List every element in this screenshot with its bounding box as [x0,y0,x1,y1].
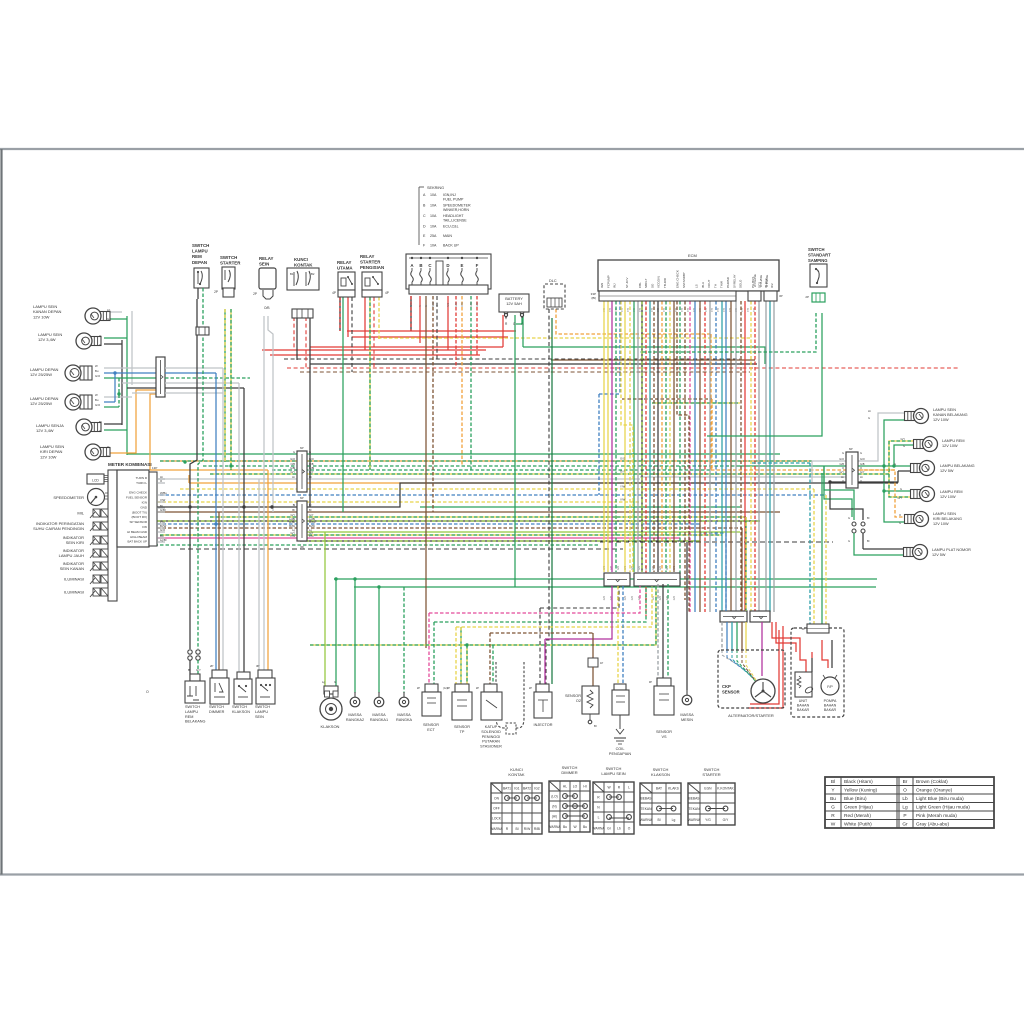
battery BT1 [499,294,529,312]
svg-text:MASSA: MASSA [680,713,694,717]
wire relay utama verticals [339,297,341,331]
svg-text:Br: Br [292,508,295,512]
svg-text:G/B: G/B [860,462,865,466]
svg-text:TURN R: TURN R [136,476,148,480]
svg-text:O: O [842,479,844,483]
svg-text:SWITCH: SWITCH [192,243,209,248]
svg-text:(N): (N) [552,804,557,808]
svg-text:Lg: Lg [322,680,326,684]
svg-text:Bl: Bl [594,724,597,728]
svg-text:4P: 4P [385,291,389,295]
svg-text:RANGKA: RANGKA [396,718,413,722]
svg-text:IGN: IGN [600,283,604,288]
svg-text:G: G [894,462,896,466]
svg-text:ECU,C&L: ECU,C&L [443,225,459,229]
svg-text:KATUP: KATUP [485,725,498,729]
svg-text:G/Y: G/Y [196,668,201,672]
wire CKP diagonal fan [722,650,749,672]
svg-text:WARNA: WARNA [640,818,653,822]
svg-text:Green (Hijau): Green (Hijau) [844,804,873,810]
svg-text:Red (Merah): Red (Merah) [844,813,871,819]
svg-text:POMPA: POMPA [824,699,837,703]
connector 9P headlight [156,357,165,397]
wire switch starter verticals [224,309,226,462]
svg-text:W/Bu: W/Bu [160,491,167,495]
svg-text:G/Y: G/Y [309,470,314,474]
svg-text:MAIN: MAIN [443,234,452,238]
svg-text:ECT: ECT [427,728,435,732]
connector 3P harness middle [604,573,630,586]
svg-text:Light Blue (Biru muda): Light Blue (Biru muda) [916,796,964,802]
bullet connectors brake switch wires [188,650,192,654]
svg-text:G/Y: G/Y [901,437,906,441]
wire sensor drop verticals [539,608,541,684]
svg-text:KONTAK: KONTAK [508,772,524,777]
svg-text:25A: 25A [430,234,437,238]
fuse legend text [418,187,420,245]
svg-text:KUNCI: KUNCI [294,257,308,262]
svg-text:Br: Br [903,779,908,785]
connector 6P above sensor vs [720,611,747,622]
svg-text:UTAMA: UTAMA [337,266,353,271]
svg-text:SWITCH: SWITCH [255,705,270,709]
wire battery green feed row [523,347,765,364]
svg-text:SPEEDOMETER: SPEEDOMETER [443,204,471,208]
connector 2P switch standart [812,293,825,302]
lamp rem upper L8 [914,440,924,449]
svg-text:METER KOMBINASI: METER KOMBINASI [108,462,152,467]
svg-text:G/Y: G/Y [898,496,903,500]
svg-text:LAMPU REM: LAMPU REM [942,439,965,443]
svg-text:12V 10W: 12V 10W [33,314,50,319]
svg-text:3P: 3P [649,680,652,684]
svg-text:BACK UP: BACK UP [443,244,459,248]
svg-text:BAKAR: BAKAR [824,708,837,712]
svg-text:O: O [628,826,631,830]
wire kunci kontak verticals [293,317,295,350]
wire relay sein verticals [263,316,265,512]
svg-text:MIL: MIL [77,511,84,516]
svg-text:KLAKSON: KLAKSON [232,710,250,714]
svg-text:KANAN BELAKANG: KANAN BELAKANG [933,413,968,417]
svg-text:G: G [899,521,901,525]
svg-text:FUEL PUMP: FUEL PUMP [443,197,464,201]
svg-text:W: W [95,393,98,397]
svg-text:FUEL SENSOR: FUEL SENSOR [126,496,148,500]
wire fuse box output verticals [410,296,412,331]
lamp plat nomor L12 [904,548,914,557]
wire left switch drops [215,373,217,678]
svg-text:12V 10W: 12V 10W [933,418,949,422]
svg-text:12V 10W: 12V 10W [942,444,958,448]
svg-text:B2: B2 [311,272,315,276]
svg-text:IGN,INJ: IGN,INJ [443,193,456,197]
svg-text:W/Bu: W/Bu [309,520,316,524]
wire battery leads [502,315,504,347]
svg-text:G/O: G/O [660,596,662,600]
svg-text:LS: LS [695,284,699,288]
svg-text:O: O [903,787,907,793]
svg-text:Light Green (Hijau muda): Light Green (Hijau muda) [916,804,970,810]
svg-text:L: L [598,815,600,819]
svg-text:HIGH BEAM: HIGH BEAM [130,535,147,539]
wire green right half rows [334,578,877,580]
svg-text:O: O [899,513,901,517]
table wire colour legend [825,777,994,828]
massa rangka2 ground G2 [354,692,356,698]
svg-text:KLAKSON: KLAKSON [651,772,670,777]
svg-text:12V 25/25W: 12V 25/25W [30,372,52,377]
svg-text:Bu: Bu [95,398,99,402]
svg-text:RELAY: RELAY [360,254,375,259]
svg-text:12V 10W: 12V 10W [40,454,57,459]
svg-text:O/B: O/B [291,462,296,466]
svg-text:G: G [334,680,336,684]
svg-text:VS: VS [661,735,667,739]
wire green feed to plat nomor with bullets [824,466,854,520]
wire DLC leads [546,309,549,684]
svg-text:SENSOR: SENSOR [656,730,672,734]
svg-text:G/Y: G/Y [291,513,296,517]
svg-text:Pink (Merah muda): Pink (Merah muda) [916,813,957,819]
svg-text:WARNA: WARNA [592,826,605,830]
svg-text:SEIN KANAN: SEIN KANAN [60,566,84,571]
svg-text:2P: 2P [529,686,532,690]
svg-text:G/Bl: G/Bl [160,508,166,512]
svg-text:3P: 3P [779,294,783,298]
svg-text:Brown (Coklat): Brown (Coklat) [916,779,948,785]
svg-text:Y/B: Y/B [711,308,714,312]
svg-text:DLC: DLC [549,279,557,283]
wire bundle main harness lower rows [157,501,640,503]
svg-text:WINKER,HORN: WINKER,HORN [443,208,469,212]
svg-text:HEADLIGHT: HEADLIGHT [443,214,464,218]
svg-text:Bu: Bu [830,796,836,802]
connector 2P brake switch [196,327,209,335]
svg-text:R/W: R/W [476,302,479,307]
svg-text:G/Y: G/Y [291,470,296,474]
svg-text:O/W: O/W [461,301,464,307]
svg-text:O/B: O/B [264,306,270,310]
svg-text:TEKAN: TEKAN [689,807,701,811]
svg-text:BAT1: BAT1 [503,786,511,790]
svg-text:G/Bl: G/Bl [309,466,314,470]
svg-text:KLAKSON: KLAKSON [321,724,340,729]
svg-text:O: O [842,466,844,470]
svg-text:12V 5W: 12V 5W [940,469,954,473]
svg-text:Bl: Bl [831,779,835,785]
svg-text:PUTARAN: PUTARAN [482,740,500,744]
svg-text:W: W [95,364,98,368]
svg-text:SEIN: SEIN [259,262,269,267]
wire headlight connector to dimmer switch [165,367,223,369]
klakson horn H1 [324,686,338,694]
ECM connector strip 3P b [764,291,777,301]
svg-text:LCD: LCD [92,479,99,483]
svg-text:TAIL,LICENSE: TAIL,LICENSE [443,218,467,222]
svg-text:ILUMINASI: ILUMINASI [64,577,84,582]
svg-text:Br/W: Br/W [289,524,295,528]
fuel pump assembly dashed box [791,628,844,717]
svg-text:Br: Br [309,508,312,512]
svg-text:BAT2: BAT2 [523,786,531,790]
svg-text:TP: TP [460,730,465,734]
svg-text:SOLENOID: SOLENOID [481,730,501,734]
wire sensor elbows from harness [540,586,619,608]
svg-text:V PHASE: V PHASE [759,275,763,287]
svg-text:PENGAPIAN: PENGAPIAN [609,752,631,756]
svg-text:R/G: R/G [447,303,450,307]
svg-text:1P: 1P [600,661,603,665]
alternator starter with CKP sensor M2 [718,650,785,708]
svg-text:Lb: Lb [107,308,111,312]
svg-text:ENG CHECK: ENG CHECK [129,491,147,495]
svg-text:Lg: Lg [902,804,908,810]
svg-text:LAMPU PLAT NOMOR: LAMPU PLAT NOMOR [932,548,971,552]
svg-text:COIL: COIL [616,747,625,751]
svg-text:3P: 3P [447,686,450,690]
connector 3P above alternator [750,611,770,622]
svg-text:Br/W: Br/W [309,524,315,528]
svg-text:U PHASE: U PHASE [765,275,769,287]
svg-text:LAMPU JAUH: LAMPU JAUH [59,553,84,558]
svg-text:HI: HI [583,784,586,788]
svg-text:OFF: OFF [493,806,500,810]
svg-text:SEIN: SEIN [255,715,264,719]
switch dimmer SW6 [212,670,227,678]
svg-text:10A: 10A [430,225,437,229]
svg-text:BEBAS: BEBAS [641,796,653,800]
svg-text:CKP: CKP [722,684,731,689]
svg-text:GND: GND [140,505,148,509]
svg-text:Black (Hitam): Black (Hitam) [844,779,873,785]
svg-text:SWITCH: SWITCH [808,247,825,252]
svg-text:INJ: INJ [613,283,617,288]
svg-text:W PHASE: W PHASE [753,274,757,287]
svg-text:Br: Br [425,304,428,307]
svg-text:Yellow (Kuning): Yellow (Kuning) [844,787,878,793]
svg-text:LOCK: LOCK [492,816,502,820]
wire black tail feeds with bullets [898,470,915,472]
svg-text:K.KONTAK: K.KONTAK [717,786,734,790]
svg-text:KONTAK: KONTAK [294,263,313,268]
svg-text:G: G [309,450,311,454]
wire red power staircase rows [347,330,516,332]
svg-text:6P: 6P [300,446,304,450]
svg-text:LAMPU BELAKANG: LAMPU BELAKANG [940,464,975,468]
svg-text:MASSA: MASSA [348,713,362,717]
wire jogged harness verticals [621,301,633,572]
svg-text:SWITCH: SWITCH [209,705,224,709]
svg-text:O: O [860,479,862,483]
svg-text:G/Y: G/Y [620,470,625,474]
switch lampu sein SW8 [258,670,272,678]
wire orange feed to sein kiri belakang [858,470,907,517]
sensor TP U3 [455,684,469,692]
sensor ECT U2 [425,684,438,692]
svg-text:G/Y: G/Y [309,513,314,517]
connector 6P harness left upper [297,451,307,492]
svg-text:Bu: Bu [95,369,99,373]
katup solenoid stasioner U4 [484,684,497,692]
svg-text:G: G [900,487,902,491]
svg-text:2P: 2P [214,290,218,294]
wire headlamp short bus [114,373,116,402]
svg-text:LAMPU REM: LAMPU REM [940,490,963,494]
svg-text:(Bl): (Bl) [591,296,596,300]
svg-text:V/W: V/W [620,498,626,502]
svg-text:G/O: G/O [639,566,641,570]
svg-text:BAHAN: BAHAN [824,704,837,708]
svg-text:G/O: G/O [290,457,295,461]
wire bundle main harness upper rows [127,453,780,455]
svg-text:ECM: ECM [688,253,697,258]
svg-text:SWITCH: SWITCH [220,255,237,260]
svg-text:KLAKS: KLAKS [668,786,679,790]
svg-text:G: G [831,804,835,810]
wire relay starter pengisian verticals [364,297,366,350]
svg-text:13P: 13P [152,466,157,470]
svg-text:Bl: Bl [188,668,191,672]
svg-text:12V 25/25W: 12V 25/25W [30,401,52,406]
svg-text:TB-IRD: TB-IRD [663,277,667,288]
svg-text:RANGKA2: RANGKA2 [346,718,364,722]
svg-text:3P: 3P [256,664,260,668]
svg-text:G: G [848,539,850,543]
fuse box SEKRING [406,254,491,289]
wire massa mesin drop [686,542,688,690]
svg-text:SWITCH: SWITCH [185,705,200,709]
svg-text:LAMPU: LAMPU [192,249,208,254]
lamp rem lower L10 [911,490,921,499]
svg-text:LAMPU SEIN: LAMPU SEIN [933,512,956,516]
svg-text:R/Bl: R/Bl [410,302,413,307]
svg-text:G: G [848,516,850,520]
svg-text:TH: TH [713,284,717,288]
switch klakson SW7 [237,672,250,679]
svg-text:VOUT: VOUT [707,279,711,288]
svg-text:IC2: IC2 [770,283,774,288]
svg-text:6P: 6P [300,496,304,500]
svg-text:BEBAS: BEBAS [689,796,701,800]
svg-text:SSTANDBY: SSTANDBY [682,272,686,288]
wire klakson and massa drops [324,532,326,686]
svg-text:SO: SO [650,283,654,288]
svg-text:(BOOT TX): (BOOT TX) [132,510,147,514]
svg-text:DIMMER: DIMMER [561,770,577,775]
svg-text:Gray (Abu-abu): Gray (Abu-abu) [916,821,949,827]
svg-text:HI BEAM GND: HI BEAM GND [127,530,148,534]
svg-text:Y/B: Y/B [681,308,684,312]
svg-text:R: R [419,305,422,307]
svg-text:INJECTOR: INJECTOR [534,723,553,727]
svg-text:P/G: P/G [291,534,295,538]
svg-text:G/W: G/W [470,301,473,307]
svg-text:LAMPU SEIN: LAMPU SEIN [601,771,625,776]
svg-text:R: R [831,813,835,819]
wire fuel pump internal [800,652,806,672]
svg-text:W/Bu: W/Bu [289,520,296,524]
wire left lamp bus verticals [121,340,123,425]
svg-text:12V 5AH: 12V 5AH [506,301,522,306]
svg-text:G: G [842,451,844,455]
svg-text:LO: LO [573,784,578,788]
svg-text:SUHU CAIRAN PENDINGIN: SUHU CAIRAN PENDINGIN [33,526,84,531]
wire green feed to tail lamps [858,465,915,467]
wire sensor vs drops [657,584,659,678]
lamp sein kanan belakang L7 [905,412,915,421]
svg-text:SENSOR: SENSOR [722,689,740,694]
svg-text:G/O: G/O [620,457,626,461]
svg-text:(LO): (LO) [551,794,558,798]
connector 4P kunci kontak [292,309,313,318]
svg-text:SEKRING: SEKRING [427,186,444,190]
svg-text:2P: 2P [417,686,420,690]
wire meter output labels [157,478,165,480]
svg-text:UNIT: UNIT [799,699,808,703]
svg-text:PENGISIAN: PENGISIAN [360,265,384,270]
svg-text:G/O: G/O [860,457,865,461]
svg-text:MESIN: MESIN [681,718,693,722]
svg-text:G: G [868,416,870,420]
svg-text:BAKAR: BAKAR [797,708,810,712]
svg-text:SOLO: SOLO [739,279,743,288]
svg-text:DEPAN: DEPAN [192,260,207,265]
svg-text:G/B: G/B [840,462,845,466]
svg-text:TEKAN: TEKAN [641,807,653,811]
svg-text:Gr: Gr [902,821,908,827]
svg-text:G/Y: G/Y [840,470,845,474]
svg-text:SYRELAY: SYRELAY [732,274,736,288]
svg-text:C: C [423,214,426,218]
svg-text:CBL: CBL [638,282,642,288]
svg-text:O/B: O/B [309,462,314,466]
svg-text:SENSOR: SENSOR [565,694,581,698]
wire coil feeds [617,586,619,690]
svg-text:V/W: V/W [160,498,166,502]
svg-text:Y/G: Y/G [705,818,711,822]
svg-text:E: E [461,263,464,268]
ECM connector strip 3P a [748,291,761,301]
svg-text:IG1: IG1 [514,786,519,790]
connector 5P fuel pump [807,624,829,633]
svg-text:G/O: G/O [95,374,101,378]
svg-text:RELAY: RELAY [337,260,352,265]
svg-text:Lg: Lg [672,818,676,822]
ECM connector strip 33P [599,291,736,301]
svg-text:SPEEDOMETER: SPEEDOMETER [53,495,84,500]
svg-text:FW: FW [142,525,147,529]
wire fuel pump feed verticals [752,462,810,464]
svg-text:Bu: Bu [583,825,587,829]
svg-text:(R): (R) [300,545,304,549]
svg-text:SENSOR: SENSOR [454,725,470,729]
svg-text:SP SENSOR: SP SENSOR [130,520,148,524]
wire katup injector dashed shields [496,662,508,728]
junction dots on harness rows [183,460,186,463]
wire ECM output verticals [603,301,605,572]
sensor VS U7 [657,678,671,686]
svg-text:PENINGGI: PENINGGI [482,735,501,739]
svg-text:Bl: Bl [658,818,661,822]
svg-text:5P: 5P [802,627,806,631]
svg-text:Blue (Biru): Blue (Biru) [844,796,867,802]
wire switch lampu rem depan vertical pair [190,299,197,649]
lamp belakang L9 [911,464,921,473]
lamp sein kiri belakang L11 [905,515,915,524]
svg-text:DIMMER: DIMMER [209,710,225,714]
svg-text:ST-4CV: ST-4CV [625,277,629,288]
